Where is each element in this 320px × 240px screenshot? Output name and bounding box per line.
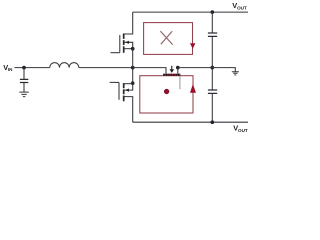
wire bottom rail xyxy=(133,121,248,123)
node Vin label xyxy=(3,63,13,72)
svg-text:OUT: OUT xyxy=(238,128,248,133)
transistor Q2 source lead xyxy=(124,83,133,85)
capacitor Cin lead bottom xyxy=(23,83,25,93)
node Q1 source dot xyxy=(131,47,135,51)
wire top rail xyxy=(133,11,248,13)
transistor Q2 gate bar xyxy=(118,82,120,99)
node sense dot xyxy=(176,66,180,70)
symbol X flux into page xyxy=(160,31,172,44)
capacitor Cout1 lead bottom xyxy=(211,36,213,67)
node bottom rail dot xyxy=(210,120,214,124)
inductor L1 xyxy=(50,63,79,68)
capacitor Cout2 lead top xyxy=(211,68,213,90)
node Vout top label xyxy=(232,1,247,11)
node Q2 source dot xyxy=(131,81,135,85)
transistor Q2 gate lead xyxy=(110,81,119,83)
transistor Q1 channel bar xyxy=(123,34,125,53)
capacitor Cout2 plates xyxy=(208,90,217,93)
loop box bottom (flux out of page) xyxy=(140,76,193,113)
transistor Q2 body arrow xyxy=(125,89,129,92)
transistor Q1 body arrow xyxy=(125,41,129,44)
svg-text:OUT: OUT xyxy=(237,6,247,11)
transistor Q1 gate bar xyxy=(119,35,121,53)
current arrow into sense element xyxy=(171,66,173,70)
transistor Q1 body lead xyxy=(124,42,132,48)
svg-text:IN: IN xyxy=(8,67,13,72)
capacitor Cout2 lead bottom xyxy=(211,93,213,122)
sense element hatch on box edge xyxy=(163,74,181,76)
wire Q1 source to switch node xyxy=(132,49,134,68)
transistor Q2 body lead xyxy=(124,84,132,90)
transistor Q1 drain lead xyxy=(124,12,133,34)
wire Vin to inductor xyxy=(15,67,50,69)
transistor Q1 gate lead xyxy=(111,52,120,54)
node top rail dot xyxy=(210,10,214,14)
node Vout bottom label xyxy=(233,124,248,134)
node Vin junction dot xyxy=(22,66,26,70)
capacitor Cout1 lead top xyxy=(211,12,213,33)
current arrow loop bottom (up) xyxy=(190,84,196,93)
wire sense dot drop xyxy=(177,68,179,74)
capacitor Cout1 plates xyxy=(208,33,217,36)
node mid rail cap dot xyxy=(210,66,214,70)
transistor Q2 channel bar xyxy=(123,83,125,101)
wire mid rail right segment xyxy=(178,68,236,72)
transistor Q1 source lead xyxy=(124,48,133,50)
capacitor Cin plates xyxy=(20,79,28,82)
wire switch node to sense element xyxy=(133,68,166,74)
ground mid right xyxy=(232,72,239,75)
wire switch node to Q2 xyxy=(132,68,134,84)
wire gray stub inside box xyxy=(179,76,181,89)
loop box top (flux into page) xyxy=(144,23,193,55)
ground input xyxy=(19,92,29,97)
wire inductor to switch node xyxy=(79,67,133,69)
transistor Q2 drain lead xyxy=(124,97,133,123)
node switch node dot xyxy=(131,66,135,70)
symbol dot flux out of page xyxy=(164,89,169,94)
capacitor Cin lead top xyxy=(23,68,25,80)
current arrow loop top (down) xyxy=(190,43,195,49)
